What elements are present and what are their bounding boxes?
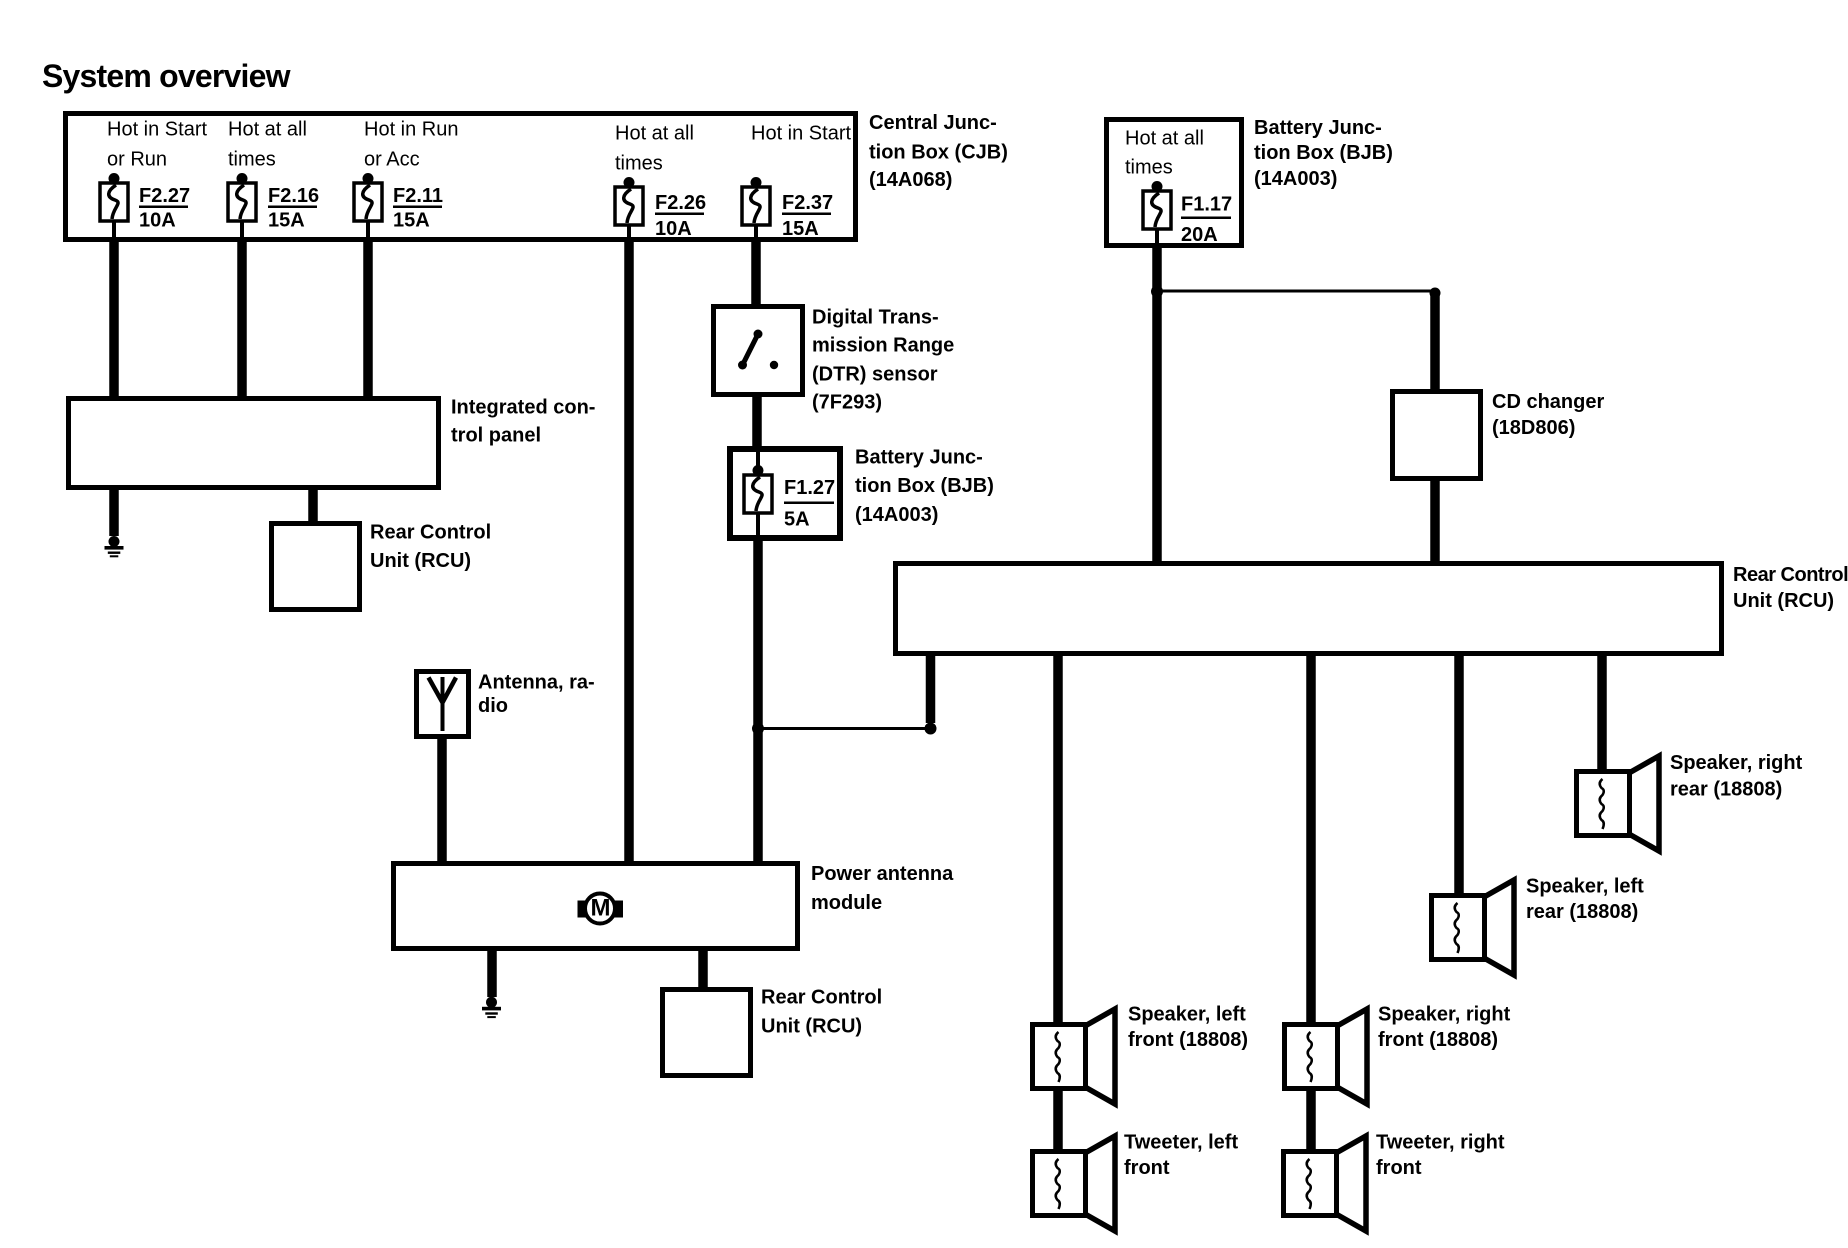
RCU bottom label — [761, 987, 882, 1038]
svg-text:(14A003): (14A003) — [1254, 168, 1337, 190]
svg-text:Rear Control: Rear Control — [370, 522, 491, 544]
antenna label — [478, 672, 595, 718]
svg-text:tion Box (BJB): tion Box (BJB) — [1254, 142, 1393, 164]
wire BJB to power antenna module — [753, 539, 763, 863]
wire RCU to speaker left front — [1053, 653, 1063, 1024]
speaker left front label — [1128, 1003, 1248, 1051]
RCU left label — [370, 522, 491, 573]
tweeter right front symbol — [1284, 1136, 1367, 1231]
title "System overview" — [42, 58, 291, 94]
svg-text:or Run: or Run — [107, 149, 167, 171]
fuse F2.37 header "Hot in Start" — [751, 123, 851, 145]
wire integrated control panel to RCU — [308, 488, 318, 523]
fuse F1.17 value label — [1181, 194, 1232, 247]
svg-text:Battery Junc-: Battery Junc- — [1254, 117, 1382, 139]
speaker left rear symbol — [1432, 880, 1515, 975]
wire BJB top-right to Rear Control Unit — [1152, 246, 1162, 563]
fuse F1.17 20A — [1143, 181, 1171, 246]
svg-text:times: times — [615, 153, 663, 175]
Integrated control panel outline — [69, 399, 439, 488]
svg-text:Antenna, ra-: Antenna, ra- — [478, 672, 595, 694]
svg-text:Hot at all: Hot at all — [228, 119, 307, 141]
fuse F2.37 15A — [742, 177, 770, 240]
svg-text:F2.16: F2.16 — [268, 185, 319, 207]
svg-text:dio: dio — [478, 695, 508, 717]
wire fuse F2.16 to integrated control panel — [237, 240, 247, 398]
Battery Junction Box (BJB) top-right outline — [1107, 120, 1242, 246]
svg-text:Tweeter, right: Tweeter, right — [1376, 1131, 1505, 1153]
wire speaker right front to tweeter right front — [1306, 1090, 1316, 1151]
tweeter left front label — [1124, 1131, 1238, 1179]
fuse F2.16 value label — [268, 185, 319, 232]
svg-text:times: times — [228, 149, 276, 171]
svg-text:Battery Junc-: Battery Junc- — [855, 447, 983, 469]
svg-text:or Acc: or Acc — [364, 149, 420, 171]
fuse F1.27 5A — [744, 448, 772, 538]
fuse F2.26 10A — [615, 177, 643, 240]
svg-text:rear (18808): rear (18808) — [1526, 901, 1638, 923]
svg-text:Hot in Start: Hot in Start — [751, 123, 851, 145]
ground below power antenna module — [482, 997, 501, 1018]
svg-text:tion Box (CJB): tion Box (CJB) — [869, 142, 1008, 164]
wire fuse F2.27 to integrated control panel — [109, 240, 119, 398]
thin tie line to CD changer wire — [1157, 290, 1435, 293]
DTR switch symbol — [738, 330, 778, 370]
svg-text:Unit (RCU): Unit (RCU) — [370, 550, 471, 572]
svg-text:F1.17: F1.17 — [1181, 194, 1232, 216]
Central Junction Box (CJB) outline — [66, 114, 856, 240]
svg-text:Tweeter, left: Tweeter, left — [1124, 1131, 1238, 1153]
wire module to RCU bottom — [698, 949, 708, 991]
svg-text:(14A003): (14A003) — [855, 504, 938, 526]
antenna symbol — [429, 677, 457, 731]
svg-text:Speaker, left: Speaker, left — [1128, 1003, 1246, 1025]
svg-text:Rear Control: Rear Control — [1733, 564, 1848, 586]
Rear Control Unit (RCU) main outline — [896, 564, 1722, 654]
CJB label — [869, 112, 1008, 191]
svg-text:(DTR) sensor: (DTR) sensor — [812, 364, 938, 386]
svg-text:15A: 15A — [393, 210, 430, 232]
svg-text:times: times — [1125, 157, 1173, 179]
svg-text:(14A068): (14A068) — [869, 169, 952, 191]
svg-text:module: module — [811, 892, 882, 914]
svg-text:10A: 10A — [139, 210, 176, 232]
svg-text:Central Junc-: Central Junc- — [869, 112, 997, 134]
svg-text:front (18808): front (18808) — [1128, 1029, 1248, 1051]
svg-text:front: front — [1124, 1157, 1170, 1179]
svg-text:F2.26: F2.26 — [655, 192, 706, 214]
fuse F2.26 value label — [655, 192, 706, 240]
CD changer outline — [1393, 392, 1481, 479]
antenna radio box — [417, 672, 469, 737]
svg-text:Unit (RCU): Unit (RCU) — [1733, 590, 1834, 612]
svg-text:(18D806): (18D806) — [1492, 417, 1575, 439]
wire RCU to speaker left rear — [1454, 653, 1464, 895]
svg-text:20A: 20A — [1181, 224, 1218, 246]
thin tie line junction to RCU stub — [758, 727, 930, 730]
CD changer label — [1492, 391, 1604, 439]
fuse F2.16 header "Hot at all times" — [228, 119, 307, 171]
fuse F2.11 value label — [393, 185, 443, 232]
fuse F2.27 value label — [139, 185, 190, 232]
svg-text:Speaker, right: Speaker, right — [1670, 752, 1803, 774]
Battery Junction Box (BJB) middle outline — [730, 449, 840, 538]
wire RCU to speaker right rear — [1597, 653, 1607, 771]
wire integrated control panel to ground — [109, 488, 119, 536]
fuse F2.11 header "Hot in Run or Acc" — [364, 119, 459, 171]
svg-text:Speaker, left: Speaker, left — [1526, 875, 1644, 897]
fuse F2.37 value label — [782, 192, 833, 240]
svg-text:(7F293): (7F293) — [812, 392, 882, 414]
svg-text:Power antenna: Power antenna — [811, 863, 954, 885]
svg-text:Hot in Start: Hot in Start — [107, 119, 207, 141]
svg-text:System overview: System overview — [42, 58, 291, 94]
svg-text:Digital Trans-: Digital Trans- — [812, 306, 939, 328]
svg-text:15A: 15A — [268, 210, 305, 232]
Integrated control panel label — [451, 397, 595, 447]
svg-text:F2.11: F2.11 — [393, 185, 443, 207]
wire module to ground — [487, 949, 497, 997]
svg-text:F1.27: F1.27 — [784, 477, 835, 499]
RCU main label — [1733, 564, 1848, 612]
Digital Transmission Range (DTR) sensor outline — [714, 307, 803, 395]
junction node on BJB wire — [752, 723, 764, 735]
svg-text:tion Box (BJB): tion Box (BJB) — [855, 475, 994, 497]
RCU stub wire with junction node — [925, 653, 937, 735]
svg-text:front (18808): front (18808) — [1378, 1029, 1498, 1051]
svg-text:Rear Control: Rear Control — [761, 987, 882, 1009]
ground below integrated control panel — [105, 536, 124, 557]
fuse F2.16 15A — [228, 173, 256, 240]
speaker right rear label — [1670, 752, 1803, 800]
svg-text:Hot at all: Hot at all — [615, 123, 694, 145]
svg-text:CD changer: CD changer — [1492, 391, 1604, 413]
speaker right front symbol — [1285, 1009, 1368, 1104]
wire fuse F2.26 to power antenna module — [624, 240, 634, 863]
Rear Control Unit (RCU) small box bottom — [663, 990, 751, 1076]
speaker right front label — [1378, 1003, 1511, 1051]
svg-text:Speaker, right: Speaker, right — [1378, 1003, 1511, 1025]
svg-text:15A: 15A — [782, 218, 819, 240]
speaker left front symbol — [1033, 1009, 1116, 1104]
svg-text:front: front — [1376, 1157, 1422, 1179]
wire fuse F2.11 to integrated control panel — [363, 240, 373, 398]
svg-text:rear (18808): rear (18808) — [1670, 778, 1782, 800]
wire DTR sensor to BJB — [752, 395, 762, 448]
fuse F2.27 10A — [100, 173, 128, 240]
tweeter left front symbol — [1033, 1136, 1116, 1231]
wire junction to CD changer — [1430, 293, 1440, 391]
svg-text:F2.27: F2.27 — [139, 185, 190, 207]
speaker right rear symbol — [1577, 756, 1660, 851]
fuse F2.11 15A — [354, 173, 382, 240]
wire speaker left front to tweeter left front — [1053, 1090, 1063, 1151]
svg-text:F2.37: F2.37 — [782, 192, 833, 214]
svg-text:Unit (RCU): Unit (RCU) — [761, 1016, 862, 1038]
wire RCU to speaker right front — [1306, 653, 1316, 1024]
svg-text:M: M — [591, 895, 611, 922]
power antenna module label — [811, 863, 954, 914]
wire antenna to power antenna module — [437, 737, 447, 863]
svg-text:5A: 5A — [784, 508, 810, 530]
svg-text:Integrated con-: Integrated con- — [451, 397, 595, 419]
BJB top-right label — [1254, 117, 1393, 190]
tweeter right front label — [1376, 1131, 1505, 1179]
svg-text:Hot in Run: Hot in Run — [364, 119, 459, 141]
motor M symbol — [578, 894, 624, 924]
wire CD changer to Rear Control Unit — [1430, 479, 1440, 563]
junction node above CD changer — [1430, 288, 1441, 299]
BJB header "Hot at all times" — [1125, 128, 1204, 179]
svg-text:Hot at all: Hot at all — [1125, 128, 1204, 150]
Power antenna module outline — [394, 864, 798, 949]
fuse F1.27 value label — [784, 477, 835, 530]
speaker left rear label — [1526, 875, 1644, 922]
fuse F2.26 header "Hot at all times" — [615, 123, 694, 175]
svg-text:10A: 10A — [655, 218, 692, 240]
svg-text:trol panel: trol panel — [451, 424, 541, 446]
fuse F2.27 header "Hot in Start or Run" — [107, 119, 207, 171]
svg-text:mission Range: mission Range — [812, 334, 954, 356]
wire fuse F2.37 to DTR sensor — [751, 240, 761, 306]
junction node below BJB — [1151, 286, 1163, 298]
DTR label — [812, 306, 954, 413]
Rear Control Unit (RCU) small box left — [272, 524, 360, 610]
BJB middle label — [855, 447, 994, 527]
